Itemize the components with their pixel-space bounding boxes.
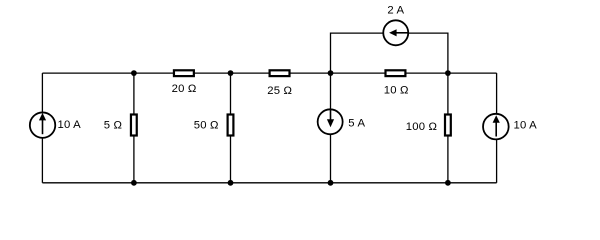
value label 2 A (top source) <box>387 4 404 16</box>
value label 100 ohm <box>406 121 437 133</box>
svg-text:10 A: 10 A <box>58 119 82 131</box>
node: bottom bus / 100 ohm branch junction <box>445 180 451 186</box>
resistor 5 ohm (vertical) <box>131 115 137 136</box>
svg-text:10 A: 10 A <box>514 120 538 132</box>
svg-text:10 Ω: 10 Ω <box>384 85 409 97</box>
resistor 25 ohm (horizontal) <box>270 70 290 76</box>
node: top bus / 100 ohm branch and 2 A loop junction <box>445 70 451 76</box>
wire: 2 A source top loop <box>331 33 448 73</box>
svg-text:20 Ω: 20 Ω <box>172 83 197 95</box>
wire: 5 A source branch <box>330 73 332 183</box>
wire: bottom horizontal bus <box>42 182 496 184</box>
resistor 10 ohm (horizontal) <box>386 70 406 76</box>
wire: right branch (10 A source branch) <box>496 73 498 183</box>
wire: 50 ohm branch <box>230 73 232 183</box>
node: top bus / 5 ohm branch junction <box>131 70 137 76</box>
current source 5 A (middle, arrow down) <box>318 109 343 135</box>
svg-text:25 Ω: 25 Ω <box>267 85 292 97</box>
wire: 100 ohm branch <box>447 73 449 183</box>
value label 20 ohm <box>172 83 197 95</box>
resistor 20 ohm (horizontal) <box>174 70 194 76</box>
svg-text:50 Ω: 50 Ω <box>194 120 219 132</box>
current source 10 A (left, arrow up) <box>30 112 55 137</box>
value label 25 ohm <box>267 85 292 97</box>
svg-text:5 A: 5 A <box>348 118 365 130</box>
node: bottom bus / 50 ohm branch junction <box>228 180 234 186</box>
value label 5 ohm <box>104 120 122 132</box>
wire: top horizontal bus <box>42 72 496 74</box>
current source 10 A (right, arrow up) <box>483 114 509 140</box>
wire: left branch (10 A source branch) <box>41 73 43 183</box>
resistor 100 ohm (vertical) <box>445 115 451 136</box>
wire: 5 ohm branch <box>133 73 135 183</box>
value label 10 A (right source) <box>514 120 538 132</box>
current source 2 A (top, arrow left) <box>383 20 409 45</box>
node: bottom bus / 5 A branch junction <box>328 180 334 186</box>
value label 10 ohm <box>384 85 409 97</box>
value label 5 A (middle source) <box>348 118 365 130</box>
value label 10 A (left source) <box>58 119 82 131</box>
svg-text:5 Ω: 5 Ω <box>104 120 122 132</box>
resistor 50 ohm (vertical) <box>228 115 234 136</box>
svg-text:2 A: 2 A <box>387 4 404 16</box>
value label 50 ohm <box>194 120 219 132</box>
node: top bus / 5 A branch and 2 A loop junction <box>328 70 334 76</box>
svg-text:100 Ω: 100 Ω <box>406 121 437 133</box>
node: bottom bus / 5 ohm branch junction <box>131 180 137 186</box>
node: top bus / 50 ohm branch junction <box>228 70 234 76</box>
